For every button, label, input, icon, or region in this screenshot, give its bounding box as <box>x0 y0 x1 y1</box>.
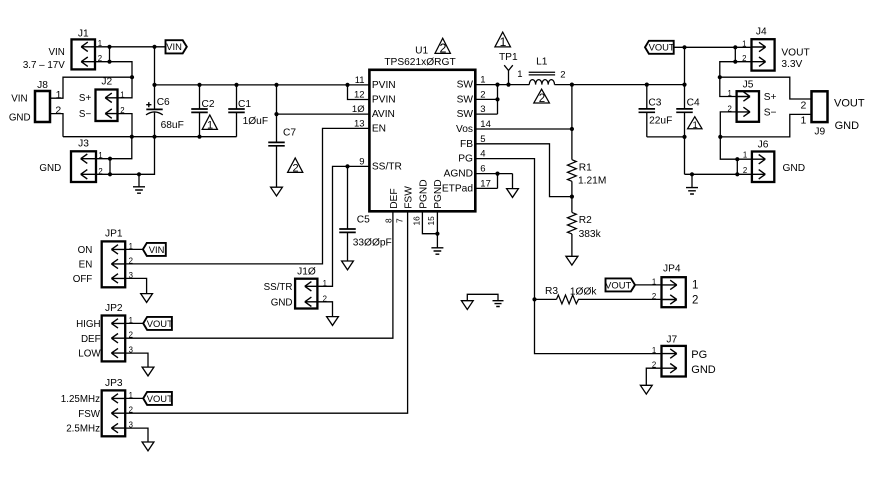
wire J3 pin2 to C6 column <box>96 137 155 175</box>
ground triangle at net-tie <box>461 301 473 310</box>
connector JP3 <box>102 378 126 436</box>
svg-text:DEF: DEF <box>81 334 101 345</box>
svg-text:JP2: JP2 <box>105 303 123 314</box>
connector JP4 <box>662 264 686 308</box>
connector J5 <box>737 80 759 122</box>
junction <box>682 135 686 139</box>
junction <box>130 135 134 139</box>
svg-text:TP1: TP1 <box>499 52 518 63</box>
junction <box>274 112 278 116</box>
svg-text:2: 2 <box>440 42 447 56</box>
wire JP2 pin3 to ground <box>125 353 148 367</box>
wire JP1 pin1 to flag <box>125 248 143 250</box>
svg-text:1.21M: 1.21M <box>578 175 606 186</box>
wire R3 to JP4 pin2 <box>581 298 662 300</box>
net flag VOUT at JP4 <box>606 278 636 291</box>
junction <box>274 83 278 87</box>
svg-text:GND: GND <box>271 297 293 308</box>
junction <box>495 97 499 101</box>
svg-text:11: 11 <box>355 75 365 86</box>
ground triangle at J10 <box>327 317 339 326</box>
wire R2 to ground <box>571 234 573 256</box>
svg-text:J4: J4 <box>756 27 767 38</box>
ground triangle at C7 <box>271 187 283 196</box>
svg-text:2: 2 <box>652 292 656 301</box>
wire JP3 pin1 to flag <box>125 397 143 399</box>
svg-text:FSW: FSW <box>78 409 101 420</box>
svg-text:S−: S− <box>764 107 777 118</box>
capacitor C2 <box>191 85 208 137</box>
svg-text:J1Ø: J1Ø <box>297 267 316 278</box>
svg-text:J7: J7 <box>666 334 677 345</box>
connector JP2 <box>102 303 126 362</box>
wire FSW net <box>125 211 407 413</box>
wire J4 pin2 to J5 pin1 <box>720 62 752 97</box>
resistor R3 <box>557 295 582 304</box>
net flag VIN at JP1 <box>143 243 166 256</box>
wire ETPad <box>475 187 497 189</box>
wire GND rail left <box>63 136 237 138</box>
junction <box>137 172 141 176</box>
svg-text:1: 1 <box>742 39 746 48</box>
connector J7 <box>662 334 686 376</box>
svg-text:PGND: PGND <box>433 179 444 208</box>
svg-text:R3: R3 <box>545 286 558 297</box>
svg-text:C6: C6 <box>157 97 170 108</box>
ground triangle at R2 <box>566 256 578 265</box>
junction <box>735 157 739 161</box>
junction <box>345 164 349 168</box>
svg-text:ETPad: ETPad <box>442 183 473 194</box>
wire output GND rail <box>685 173 752 175</box>
svg-text:VOUT: VOUT <box>781 47 809 58</box>
svg-text:TPS621xØRGT: TPS621xØRGT <box>384 57 455 68</box>
svg-text:VOUT: VOUT <box>147 318 173 329</box>
svg-text:1Ø: 1Ø <box>352 104 365 115</box>
svg-text:EN: EN <box>79 260 93 271</box>
ground triangle at JP1 <box>141 294 153 303</box>
junction <box>682 45 686 49</box>
junction <box>435 232 439 236</box>
capacitor C6 <box>146 47 163 137</box>
connector J9 <box>812 91 828 137</box>
svg-text:PGND: PGND <box>418 179 429 208</box>
wire J6 tie <box>736 159 738 174</box>
resistor R2 <box>568 212 577 234</box>
wire JP2 pin1 to flag <box>125 322 143 324</box>
svg-text:1: 1 <box>517 69 522 80</box>
warning triangle 2 at U1 <box>435 38 450 53</box>
net flag VOUT at JP2 <box>143 317 172 330</box>
svg-text:AGND: AGND <box>444 169 473 180</box>
svg-text:J8: J8 <box>37 80 48 91</box>
wire R1 to R2 <box>571 181 573 212</box>
svg-text:PG: PG <box>458 154 473 165</box>
wire AGND <box>475 173 512 175</box>
junction <box>107 45 111 49</box>
ground earth at net-tie <box>493 301 504 307</box>
svg-text:16: 16 <box>411 216 421 226</box>
svg-text:22uF: 22uF <box>649 115 672 126</box>
wire SW pin3 tie <box>475 113 497 115</box>
wire ground stub at J3 <box>138 174 140 187</box>
wire ground stub right <box>691 174 693 187</box>
svg-text:VIN: VIN <box>149 244 165 255</box>
svg-text:8: 8 <box>383 218 393 223</box>
svg-text:PVIN: PVIN <box>372 80 396 91</box>
svg-text:S+: S+ <box>764 92 777 103</box>
svg-text:GND: GND <box>9 112 31 123</box>
svg-text:GND: GND <box>835 120 860 132</box>
ground earth near J3 <box>133 187 145 193</box>
svg-text:12: 12 <box>354 90 365 101</box>
ground earth at PGND <box>431 248 443 254</box>
svg-text:1: 1 <box>500 35 507 49</box>
test point TP1 <box>504 65 513 84</box>
svg-text:2: 2 <box>800 100 806 112</box>
ground triangle at JP3 <box>142 442 154 451</box>
wire SW pin1 to L1 <box>475 84 529 86</box>
connector JP1 <box>102 229 126 288</box>
svg-text:C7: C7 <box>283 127 296 138</box>
junction <box>108 172 112 176</box>
wire AGND ground stub <box>512 174 514 189</box>
svg-text:2: 2 <box>292 163 298 175</box>
warning triangle 2 at C7 <box>288 158 303 172</box>
svg-text:SW: SW <box>457 94 474 105</box>
svg-text:VOUT: VOUT <box>605 279 631 290</box>
svg-text:R2: R2 <box>579 215 592 226</box>
wire J3 pin1-pin2 tie <box>109 159 111 175</box>
warning triangle 2 at L1 <box>534 89 550 103</box>
svg-text:EN: EN <box>372 124 386 135</box>
svg-text:1: 1 <box>727 89 731 98</box>
junction <box>733 60 737 64</box>
svg-text:AVIN: AVIN <box>372 109 395 120</box>
svg-text:7: 7 <box>395 218 405 223</box>
wire AGND-ETPad tie <box>497 174 499 189</box>
junction <box>690 172 694 176</box>
svg-text:2: 2 <box>539 93 545 105</box>
wire PVIN rail <box>155 84 370 86</box>
capacitor C7 <box>268 114 285 187</box>
junction <box>197 83 201 87</box>
svg-text:1: 1 <box>692 280 698 292</box>
svg-text:J6: J6 <box>758 140 769 151</box>
svg-text:J2: J2 <box>101 77 112 88</box>
junction <box>735 172 739 176</box>
junction <box>107 60 111 64</box>
junction <box>570 127 574 131</box>
svg-text:1: 1 <box>743 151 747 160</box>
junction <box>506 83 510 87</box>
svg-text:2: 2 <box>55 104 61 116</box>
svg-text:JP4: JP4 <box>663 264 681 275</box>
svg-text:1: 1 <box>652 277 656 286</box>
wire FB net <box>475 144 572 197</box>
warning triangle 1 at C4 <box>688 117 702 129</box>
warning triangle 1 at TP1 <box>495 32 511 47</box>
junction <box>645 83 649 87</box>
junction <box>733 45 737 49</box>
wire J1 pin1-pin2 tie <box>109 47 111 62</box>
junction <box>718 75 722 79</box>
junction <box>108 157 112 161</box>
wire J8 pin2 to GND rail <box>50 114 63 137</box>
wire PG net <box>475 159 661 354</box>
svg-text:SW: SW <box>457 80 474 91</box>
wire Vos net <box>475 128 572 130</box>
wire PG to R3 <box>535 298 557 300</box>
connector J1 <box>72 29 96 70</box>
svg-text:3.3V: 3.3V <box>781 59 802 70</box>
svg-text:S−: S− <box>79 109 92 120</box>
junction <box>152 45 156 49</box>
wire EN net <box>125 128 369 264</box>
svg-text:SW: SW <box>457 109 474 120</box>
ground triangle at J7 <box>640 385 652 394</box>
wire VOUT flag line <box>674 46 752 48</box>
svg-text:2: 2 <box>692 294 698 306</box>
svg-text:OFF: OFF <box>73 274 93 285</box>
wire PVIN pin12 link <box>348 85 370 100</box>
svg-text:1: 1 <box>800 114 806 126</box>
junction <box>570 83 574 87</box>
junction <box>495 83 499 87</box>
svg-text:FB: FB <box>460 139 473 150</box>
svg-text:33ØØpF: 33ØØpF <box>353 237 392 248</box>
svg-text:C5: C5 <box>357 215 370 226</box>
wire J7 pin2 to ground <box>646 368 661 385</box>
wire SW node to R1 <box>571 85 573 160</box>
svg-text:HIGH: HIGH <box>76 319 101 330</box>
svg-text:15: 15 <box>426 216 436 226</box>
wire PGND pin16 stub <box>422 211 437 233</box>
svg-text:SS/TR: SS/TR <box>372 162 402 173</box>
svg-text:383k: 383k <box>579 229 602 240</box>
resistor R1 <box>568 160 577 182</box>
connector J3 <box>71 139 96 182</box>
svg-text:R1: R1 <box>579 162 592 173</box>
net flag VOUT at JP3 <box>143 392 172 405</box>
junction <box>570 195 574 199</box>
wire net-tie bridge <box>467 294 498 300</box>
wire PGND pin15 stub <box>436 211 438 248</box>
svg-text:1.25MHz: 1.25MHz <box>61 394 100 405</box>
junction <box>197 135 201 139</box>
svg-text:J3: J3 <box>78 139 89 150</box>
svg-text:VOUT: VOUT <box>649 42 675 53</box>
wire JP3 pin3 to ground <box>125 428 148 442</box>
svg-text:C1: C1 <box>238 99 251 110</box>
wire SS/TR net <box>317 166 369 286</box>
wire J5 pin2 to GND sense <box>720 112 752 159</box>
wire SW pin2 tie <box>475 98 497 100</box>
junction <box>718 135 722 139</box>
svg-text:PVIN: PVIN <box>372 95 396 106</box>
svg-text:VIN: VIN <box>166 41 182 52</box>
connector J10 <box>295 267 317 309</box>
connector J6 <box>752 140 774 182</box>
svg-text:1ØØk: 1ØØk <box>570 286 598 297</box>
svg-text:SS/TR: SS/TR <box>264 282 293 293</box>
svg-text:L1: L1 <box>536 56 548 67</box>
svg-text:1: 1 <box>207 120 213 132</box>
junction <box>152 135 156 139</box>
capacitor C1 <box>228 85 245 137</box>
svg-text:1: 1 <box>56 89 62 101</box>
svg-text:C2: C2 <box>202 99 215 110</box>
wire JP1 pin3 to ground <box>125 278 146 293</box>
svg-text:FSW: FSW <box>403 186 414 209</box>
svg-text:Vos: Vos <box>456 124 473 135</box>
wire VOUT flag to JP4 pin1 <box>635 284 662 286</box>
wire L1 to VOUT rail <box>555 84 685 86</box>
wire J10 pin2 to ground <box>317 302 332 317</box>
inductor L1 <box>529 72 555 84</box>
svg-text:J1: J1 <box>78 29 89 40</box>
svg-text:VOUT: VOUT <box>147 393 173 404</box>
wire DEF net <box>125 211 393 338</box>
svg-text:JP3: JP3 <box>105 378 123 389</box>
junction <box>345 83 349 87</box>
wire SW tie vertical <box>497 85 499 115</box>
junction <box>532 297 536 301</box>
net flag VIN output <box>166 40 187 53</box>
capacitor C5 <box>339 166 356 261</box>
wire J4 tie <box>734 47 736 61</box>
wire J9 pin1 to GND sense <box>720 114 811 136</box>
junction <box>130 75 134 79</box>
junction <box>234 83 238 87</box>
warning triangle 1 at C2 <box>202 115 217 129</box>
svg-text:ON: ON <box>78 245 93 256</box>
junction <box>682 83 686 87</box>
ground triangle at JP2 <box>142 367 154 376</box>
wire J3 pin1 riser <box>96 137 132 159</box>
capacitor C3 <box>639 85 656 137</box>
svg-text:JP1: JP1 <box>105 229 123 240</box>
net flag VOUT input top <box>645 41 674 54</box>
wire J8 pin1 to VIN node <box>50 77 132 98</box>
svg-text:LOW: LOW <box>78 349 101 360</box>
svg-text:GND: GND <box>783 163 806 174</box>
op-amp U1 TPS621x0RGT body <box>369 70 475 212</box>
wire AVIN link <box>277 85 370 114</box>
svg-text:U1: U1 <box>415 45 428 56</box>
wire J1 pin1 to VIN flag <box>95 46 166 48</box>
capacitor C4 <box>676 47 693 174</box>
svg-text:3.7 – 17V: 3.7 – 17V <box>23 60 65 71</box>
svg-text:1ØuF: 1ØuF <box>243 116 268 127</box>
svg-text:VOUT: VOUT <box>834 98 865 110</box>
svg-text:GND: GND <box>39 163 61 174</box>
wire J2 pin2 to GND rail <box>118 114 133 137</box>
svg-text:2: 2 <box>743 166 747 175</box>
svg-text:C4: C4 <box>687 97 700 108</box>
svg-text:2: 2 <box>560 69 565 80</box>
svg-text:2.5MHz: 2.5MHz <box>66 424 100 435</box>
wire VOUT sense to J9 pin2 <box>720 77 812 99</box>
svg-text:GND: GND <box>691 364 716 376</box>
svg-text:DEF: DEF <box>389 188 400 208</box>
svg-text:C3: C3 <box>648 97 661 108</box>
connector J2 <box>96 77 118 122</box>
svg-text:VIN: VIN <box>11 93 27 104</box>
connector J4 <box>752 27 775 71</box>
svg-text:1: 1 <box>652 346 656 355</box>
connector J8 <box>35 80 50 122</box>
ground triangle at AGND <box>507 189 519 198</box>
junction <box>495 172 499 176</box>
svg-text:68uF: 68uF <box>161 120 184 131</box>
wire J1 pin2 to J2 pin1 <box>95 62 132 98</box>
junction <box>152 83 156 87</box>
ground triangle at C5 <box>342 261 354 270</box>
svg-text:J9: J9 <box>814 127 825 138</box>
ground earth at output <box>686 188 698 194</box>
svg-text:VIN: VIN <box>48 47 64 58</box>
svg-text:PG: PG <box>691 349 707 361</box>
svg-text:1: 1 <box>692 120 697 131</box>
wire C3 bottom tie <box>647 136 685 138</box>
svg-text:S+: S+ <box>79 93 92 104</box>
svg-text:J5: J5 <box>743 80 754 91</box>
